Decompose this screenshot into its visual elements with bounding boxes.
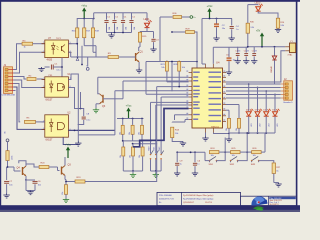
- wire U2 bottom pin to ground: [63, 137, 78, 144]
- wire rail y18.5: [77, 18, 95, 20]
- svg-text:TLP1: TLP1: [56, 38, 62, 40]
- svg-text:10k: 10k: [139, 155, 141, 158]
- resistor R26: [252, 148, 262, 157]
- ground C3: [150, 47, 156, 53]
- border bottom band lower edge: [0, 210, 300, 212]
- wire J2 pin y91: [226, 90, 281, 92]
- wire network top rail: [117, 118, 144, 120]
- wire U1 pin7: [68, 74, 78, 90]
- wire R24-R25: [219, 151, 231, 153]
- transistor Q1: [136, 50, 144, 62]
- ground under R32: [226, 134, 232, 143]
- ground C4: [229, 37, 235, 42]
- transistor Q3 bottom: [62, 163, 72, 175]
- svg-text:33: 33: [247, 51, 249, 53]
- ground C1: [38, 67, 44, 72]
- wire R18 bottom: [93, 38, 96, 53]
- wire y105 to U4: [156, 104, 189, 106]
- wire Q4 collector to R20: [26, 164, 39, 167]
- wire crystal pin2: [226, 51, 285, 82]
- wire J2 pin y94.5: [226, 94, 281, 96]
- svg-text:10k: 10k: [253, 155, 256, 157]
- svg-text:T89C51: T89C51: [211, 127, 220, 129]
- wire R23 bottom to U4: [167, 71, 189, 82]
- svg-text:10u: 10u: [222, 28, 225, 30]
- title row2: [159, 199, 214, 201]
- wire R25-R26: [240, 151, 252, 153]
- logo red dot: [258, 201, 260, 203]
- resistor network row1 R41: [129, 119, 134, 141]
- wire Q3b collector up: [64, 157, 66, 166]
- wire R18 top: [93, 13, 106, 28]
- switch SW0 small: [148, 102, 153, 171]
- svg-text:10k: 10k: [129, 132, 131, 135]
- wire R1 bottom: [6, 161, 9, 181]
- wire R20 to Q3b base: [49, 167, 60, 171]
- wire Q3b emitter to R2: [64, 176, 66, 180]
- capacitor C15 small: [244, 47, 249, 60]
- svg-text:10k: 10k: [175, 133, 178, 135]
- wire x225.2 up: [224, 138, 226, 153]
- wire right Vcc rail: [202, 18, 232, 20]
- IC U4 pin numbers: [186, 71, 225, 121]
- resistor network row2 R44: [130, 144, 135, 171]
- switch SW3: [251, 156, 260, 166]
- svg-text:3: 3: [43, 86, 44, 88]
- svg-text:@2005/5/07: @2005/5/07: [183, 202, 195, 204]
- svg-text:33: 33: [255, 51, 257, 53]
- capacitor C8: [78, 108, 91, 125]
- wire U7 pin2 out: [68, 52, 70, 57]
- title row3: [159, 202, 213, 204]
- wire input to R1: [7, 142, 9, 151]
- svg-text:+Vcc: +Vcc: [81, 4, 88, 8]
- svg-text:3.3k: 3.3k: [280, 25, 284, 27]
- wire R13 bottom: [172, 138, 183, 142]
- wire y81 to U4 pin: [123, 81, 189, 99]
- wire y114.8 to U4: [175, 115, 189, 120]
- LED D2: [246, 83, 253, 133]
- svg-text:10n: 10n: [38, 184, 41, 186]
- ground C5: [226, 71, 232, 76]
- wire R32 R33 bottoms: [228, 128, 240, 134]
- logo shell blue: [251, 196, 267, 205]
- ground U4 pin gnd: [202, 137, 208, 142]
- svg-text:00000477171 B: 00000477171 B: [159, 199, 174, 201]
- ground U2: [75, 135, 81, 146]
- svg-text:Py-DV200508 Obyav /24m (prilyv: Py-DV200508 Obyav /24m (prilyv): [183, 199, 214, 201]
- svg-text:CON MIC16B: CON MIC16B: [2, 94, 16, 96]
- resistor network row2 R43: [120, 141, 125, 171]
- resistor R16: [72, 28, 79, 38]
- ground C7: [3, 194, 9, 199]
- wire R2 bottom: [65, 194, 67, 198]
- resistor R30: [246, 21, 255, 33]
- title block left box: [157, 192, 241, 205]
- capacitor C9: [175, 152, 183, 171]
- ground cap bank: [108, 33, 114, 39]
- wire J2 pin y98: [226, 97, 281, 99]
- svg-text:1u: 1u: [180, 164, 182, 166]
- wire R15 bottom to Q1 collector: [139, 42, 140, 51]
- svg-text:1k: 1k: [276, 170, 278, 172]
- capacitor C7: [4, 181, 13, 193]
- svg-text:10k: 10k: [211, 155, 214, 157]
- wire U7 area to C1: [61, 58, 63, 77]
- wire R26 to vert: [264, 133, 266, 152]
- capacitor C2 electrolytic: [214, 19, 225, 37]
- wire LED1 to R15: [140, 28, 154, 34]
- wire cap bank bottom rail: [107, 32, 132, 34]
- svg-text:1k: 1k: [24, 47, 26, 49]
- svg-text:2: 2: [43, 78, 44, 80]
- power +5V arrow: [256, 29, 264, 46]
- wire x172 vert: [171, 61, 173, 92]
- text U2 labels: [46, 113, 72, 142]
- svg-text:2: 2: [43, 51, 44, 53]
- LED LED1: [144, 18, 152, 27]
- wire LED bottom rail: [229, 132, 275, 134]
- svg-text:10n: 10n: [9, 184, 12, 186]
- svg-text:+5V: +5V: [256, 29, 261, 32]
- border bottom band: [0, 205, 300, 212]
- wire J1 pin3 to R4: [14, 77, 27, 80]
- LED LED0: [255, 3, 263, 12]
- wire J1 pin1 to R3: [14, 44, 22, 70]
- wire SW1-SW2: [217, 152, 226, 161]
- wire LED0 cathode to R14: [258, 11, 278, 18]
- wire vert x80.5: [80, 92, 82, 109]
- wire SW1 left: [205, 152, 210, 160]
- wire y57 U7 to R9: [71, 56, 109, 58]
- title block right box: [241, 196, 297, 205]
- svg-text:104: 104: [125, 27, 127, 30]
- wire R9 to Q1 base: [119, 56, 136, 58]
- svg-text:.1u: .1u: [236, 29, 239, 31]
- wire switches to ground: [151, 170, 162, 173]
- capacitor C4: [230, 19, 240, 37]
- wire rail from R13 area: [176, 151, 178, 153]
- svg-text:+Vcc: +Vcc: [65, 143, 72, 147]
- svg-text:1: 1: [43, 42, 44, 44]
- svg-text:100k: 100k: [11, 156, 13, 160]
- ground Q1: [136, 68, 142, 74]
- resistor R28: [174, 62, 185, 72]
- resistor R29: [186, 28, 195, 33]
- wire U4 to R13: [172, 120, 188, 123]
- svg-text:10k: 10k: [120, 155, 122, 158]
- svg-text:4N35: 4N35: [47, 59, 53, 61]
- ground Q4 emitter: [26, 180, 35, 195]
- svg-text:104: 104: [134, 27, 136, 30]
- wire stub x82: [81, 46, 83, 66]
- resistor R9: [108, 53, 119, 58]
- ground C15: [243, 60, 249, 64]
- ground network left green: [130, 173, 136, 178]
- wire y77.3 to U4 pin: [98, 76, 189, 78]
- resistor R14: [276, 18, 285, 28]
- wire R29 right: [194, 32, 197, 62]
- border left: [0, 0, 1, 212]
- LED D3: [255, 87, 262, 133]
- wire x146 vert: [146, 62, 189, 95]
- wire y90.7 to U4 pin: [115, 91, 189, 135]
- capacitor C13 (bank): [129, 13, 136, 33]
- text U7 pin numbers: [43, 42, 70, 53]
- resistor R1: [6, 151, 13, 161]
- power +Vcc arrow below U2: [65, 143, 72, 158]
- ground switches green: [153, 173, 159, 178]
- wire U7 pin4 vertical: [77, 44, 79, 57]
- wire R3 to U7 pin1: [33, 43, 45, 45]
- wire U4 top pin2 to rail: [212, 47, 214, 64]
- resistor R15: [138, 32, 147, 42]
- wire J1 pin4 to U1 pin3: [14, 80, 45, 88]
- wire x247.2 up: [246, 132, 248, 152]
- wire R28 bottom to U4: [157, 71, 189, 87]
- svg-text:1N4148: 1N4148: [271, 66, 273, 73]
- wire network row2 bottoms to ground: [123, 170, 142, 173]
- text U2 pin numbers: [43, 120, 70, 130]
- bus U4 to network: [133, 109, 189, 147]
- connector J2: [281, 78, 293, 100]
- border right: [296, 0, 298, 207]
- wire J1 pin6 to U2 pin3: [14, 87, 45, 129]
- wire U4 bottom pin2: [214, 133, 230, 134]
- wire Q4 emitter: [25, 176, 35, 181]
- wire R16 bottom to U7 pin4: [76, 38, 78, 44]
- title row1: [159, 195, 214, 197]
- net label stub: [86, 57, 88, 67]
- wire to R36: [160, 17, 173, 62]
- text J1 type: [2, 94, 16, 96]
- text U4 part: [211, 127, 220, 129]
- wire R19 right long: [85, 87, 157, 182]
- resistor network row1 R42: [139, 119, 144, 141]
- resistor R5: [25, 118, 36, 124]
- svg-text:6N137: 6N137: [46, 140, 53, 142]
- sheet outer white margin right: [298, 0, 300, 206]
- wire J2 pin y87.5: [226, 87, 281, 89]
- capacitor C11 (bank): [112, 13, 119, 33]
- optocoupler U7: [42, 40, 72, 58]
- svg-text:+Vcc: +Vcc: [126, 104, 133, 108]
- wire R4 to U1 pin2: [37, 78, 45, 81]
- title block divider: [181, 192, 183, 205]
- wire Q4 collector loop: [19, 161, 26, 166]
- ground Q3 green: [93, 108, 99, 113]
- capacitor C12 (bank): [121, 13, 128, 33]
- svg-text:10k: 10k: [161, 67, 164, 69]
- diode D1: [271, 47, 277, 73]
- wire SW3 to R27: [259, 161, 274, 163]
- svg-text:10k: 10k: [232, 155, 235, 157]
- resistor R32 vertical: [226, 118, 231, 131]
- wire U7 pin1 out: [68, 43, 78, 45]
- title right rows: [269, 197, 296, 206]
- wire Q3 emitter to ground: [96, 104, 100, 108]
- resistor network row2 R45: [139, 141, 144, 171]
- wire U4 pins to vertical resistors: [226, 105, 239, 119]
- IC U4 body: [189, 64, 226, 133]
- wire y61.5 right down to U4 top area: [196, 61, 198, 68]
- power +Vcc arrow resistor network: [126, 104, 133, 119]
- svg-text:LED1: LED1: [144, 18, 151, 21]
- wire U1 out pin6: [68, 88, 80, 109]
- svg-text:10k: 10k: [119, 132, 121, 135]
- wire J2 pin y84: [226, 83, 281, 85]
- svg-text:P/N: 4146466: P/N: 4146466: [159, 195, 173, 197]
- net port arrow small: [76, 58, 79, 61]
- wire LED0 anode: [248, 5, 258, 24]
- svg-text:1u: 1u: [197, 164, 199, 166]
- wire vert x78.3: [78, 90, 115, 135]
- net port R36: [182, 16, 197, 20]
- wire U2 output: [68, 130, 115, 132]
- switch SW1 small: [154, 105, 159, 171]
- svg-text:10k: 10k: [226, 128, 228, 131]
- wire U4 bottom pin1 gnd: [205, 133, 207, 137]
- crystal Y1: [285, 41, 296, 57]
- IC U4 pin names: [193, 72, 221, 122]
- text J2 type: [284, 101, 294, 104]
- ground C2: [213, 37, 219, 42]
- ground C9: [174, 172, 180, 177]
- wire R5 to U2: [36, 121, 45, 123]
- logo leaves green: [253, 206, 264, 210]
- resistor R33 vertical: [236, 118, 241, 131]
- resistor R36: [173, 13, 182, 18]
- svg-text:Header 5: Header 5: [284, 101, 294, 104]
- wire R1 to Q4 base: [7, 166, 21, 171]
- ground R14: [275, 28, 281, 32]
- optocoupler U2: [42, 115, 69, 137]
- LED D4: [263, 90, 270, 133]
- svg-text:0.1u: 0.1u: [86, 119, 90, 121]
- wire R17 bottom: [84, 38, 96, 57]
- resistor R23: [161, 62, 169, 72]
- resistor network row1 R40: [119, 119, 124, 141]
- svg-text:+Vcc: +Vcc: [207, 4, 214, 8]
- capacitor C10 (bank): [104, 13, 111, 33]
- capacitor C5 electrolytic: [226, 47, 236, 70]
- wire Q1 emitter to ground: [138, 62, 140, 68]
- resistor R20: [39, 162, 49, 168]
- wire network mid rails: [122, 140, 157, 145]
- transistor Q4: [17, 166, 27, 176]
- capacitor C10: [193, 152, 201, 171]
- LED D5: [272, 94, 279, 133]
- svg-text:104: 104: [117, 27, 119, 30]
- resistor R3: [22, 40, 33, 48]
- ground R27: [274, 183, 282, 188]
- resistor R17: [83, 28, 91, 38]
- svg-text:0.1u: 0.1u: [57, 70, 61, 72]
- svg-text:Py-DV200508 Obyav /24m (prilyv: Py-DV200508 Obyav /24m (prilyv): [183, 195, 214, 197]
- svg-text:3.3k: 3.3k: [250, 27, 254, 29]
- capacitor C6: [33, 181, 42, 190]
- capacitor C16 small: [252, 47, 257, 60]
- ground C10: [192, 172, 198, 177]
- svg-text:104: 104: [109, 27, 111, 30]
- wire R17 top: [83, 19, 85, 28]
- svg-text:33: 33: [238, 51, 240, 53]
- svg-text:10k: 10k: [130, 155, 132, 158]
- wire R16 top: [76, 19, 78, 28]
- resistor R27: [272, 163, 281, 174]
- capacitor C1: [45, 64, 63, 72]
- resistor R25: [231, 148, 241, 157]
- wire D1 bottom: [274, 60, 276, 84]
- svg-text:13:07 B: 13:07 B: [205, 202, 213, 204]
- resistor R18: [91, 28, 99, 38]
- wire J1 pin2 to U7 pin3: [14, 52, 45, 73]
- wire to R29: [171, 31, 185, 33]
- resistor R13: [171, 127, 180, 137]
- wire J1 pin5 to R5: [14, 84, 21, 122]
- capacitor C14 small: [235, 47, 240, 60]
- wire y61.5 rail: [146, 61, 197, 63]
- power +Vcc arrow (left rail): [81, 4, 88, 19]
- wire R27 bottom: [273, 174, 275, 183]
- connector J1: [4, 64, 14, 94]
- wire Q3 base: [103, 98, 123, 100]
- ground R13: [180, 142, 186, 147]
- wire J1 pin7 stub: [14, 90, 16, 92]
- wire Q3 collector: [98, 77, 100, 94]
- text U7 labels: [47, 38, 62, 61]
- wire cap bank top rail: [106, 12, 133, 14]
- text U4 ref: [216, 60, 220, 64]
- svg-text:SW2: SW2: [159, 147, 161, 151]
- ground C14: [235, 60, 241, 64]
- resistor R4: [27, 76, 36, 81]
- ground R2 green: [63, 199, 69, 203]
- text U1 labels: [46, 74, 72, 102]
- svg-text:10k: 10k: [236, 128, 238, 131]
- wire R30 bottom to rail: [247, 33, 249, 47]
- resistor R24: [209, 148, 219, 157]
- wire y97 to U4: [161, 96, 188, 98]
- wire y102.4 to U4: [151, 101, 189, 103]
- svg-text:10k: 10k: [182, 67, 185, 69]
- ground C16: [251, 60, 257, 64]
- switch SW2 small: [159, 97, 164, 171]
- svg-text:10k: 10k: [139, 132, 141, 135]
- border top: [0, 0, 300, 2]
- resistor R19: [65, 177, 85, 183]
- switch SW1: [209, 156, 218, 166]
- svg-text:6N137: 6N137: [46, 100, 53, 102]
- wire R26 right: [261, 151, 265, 153]
- net port circle: [86, 68, 89, 71]
- svg-text:10k: 10k: [62, 192, 64, 195]
- wire crystal rail: [213, 46, 285, 48]
- wire SW2-SW3: [238, 152, 248, 161]
- svg-text:3: 3: [43, 128, 44, 130]
- svg-text:Sh1@RTU: Sh1@RTU: [270, 204, 280, 206]
- capacitor C3: [151, 32, 159, 47]
- net port input circle: [5, 131, 9, 142]
- title right cell divider: [268, 196, 270, 205]
- switch SW2: [230, 156, 239, 166]
- text U1 pin numbers: [43, 78, 70, 88]
- transistor Q3 mid: [100, 94, 106, 108]
- optocoupler U1: [42, 77, 72, 97]
- wire bottom rail: [176, 151, 205, 153]
- svg-text:U4: U4: [216, 60, 220, 64]
- wire rail left drop to U4 top: [202, 19, 206, 65]
